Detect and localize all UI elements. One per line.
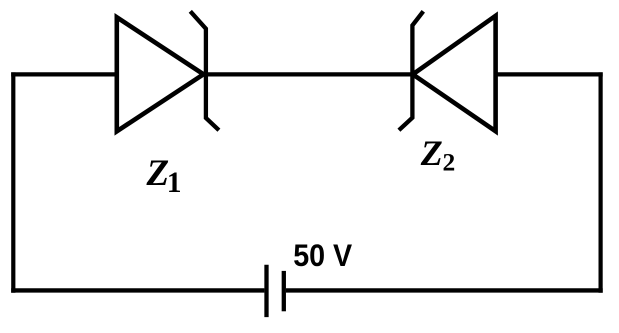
svg-text:Z: Z	[420, 133, 443, 173]
svg-text:Z: Z	[146, 153, 170, 194]
svg-text:50 V: 50 V	[293, 237, 352, 273]
svg-text:2: 2	[443, 147, 456, 176]
svg-text:1: 1	[167, 167, 182, 199]
